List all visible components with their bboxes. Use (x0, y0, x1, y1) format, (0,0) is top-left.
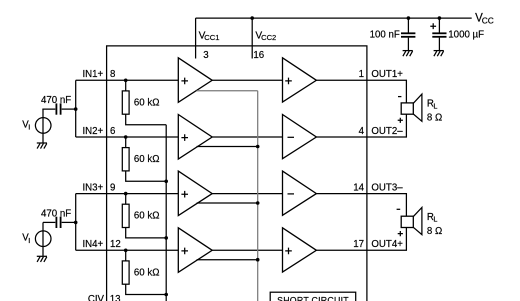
svg-text:14: 14 (353, 183, 364, 194)
IN4+ label (82, 239, 103, 250)
svg-text:60 kΩ: 60 kΩ (134, 267, 160, 278)
pin number 3 (203, 50, 208, 61)
node dot R4 top (124, 249, 128, 253)
wire node B vertical split (75, 194, 77, 251)
node dot C3 tap (407, 16, 411, 20)
svg-text:6: 6 (110, 126, 115, 137)
node dot R3 bus join (164, 236, 168, 240)
pin number 13 (110, 294, 121, 301)
svg-text:8: 8 (110, 69, 115, 80)
svg-text:CC1: CC1 (204, 33, 219, 42)
node dot R2 top (124, 135, 128, 139)
resistor R2 60k (122, 137, 166, 181)
svg-text:17: 17 (353, 239, 364, 250)
470 nF value label lower (41, 209, 71, 220)
op-amp P1 power stage (283, 58, 317, 102)
IN1+ label (82, 69, 103, 80)
VI label lower (22, 233, 30, 245)
pin number 8 (110, 69, 115, 80)
feedback bus wire gray (257, 91, 259, 301)
resistor R4 60k (122, 250, 166, 294)
ground below C4 (434, 51, 444, 57)
svg-text:60 kΩ: 60 kΩ (134, 211, 160, 222)
op-amp A3 input buffer (178, 171, 212, 216)
resistor R3 60k (122, 194, 166, 238)
node dot R3 top (124, 192, 128, 196)
node B input tee dot (74, 221, 78, 225)
60 kohm label R4 (134, 267, 160, 278)
60 kohm label R2 (134, 154, 160, 165)
pin number 6 (110, 126, 115, 137)
plus polarity mark C4 (430, 23, 436, 29)
100 nF value label (370, 30, 400, 41)
svg-text:CIV: CIV (88, 294, 105, 301)
wire OUT1+ (316, 80, 406, 103)
capacitor C4 1000uF electrolytic (432, 18, 446, 51)
wire node A vertical split (75, 80, 77, 137)
pin number 16 (253, 50, 264, 61)
minus mark speaker upper (398, 96, 401, 98)
pin 3 VCC1 wire (195, 18, 197, 58)
svg-text:CC: CC (482, 15, 494, 25)
svg-text:4: 4 (359, 126, 365, 137)
IC package outline U1 (107, 46, 367, 301)
wire A3 out (212, 193, 282, 195)
svg-text:IN1+: IN1+ (82, 69, 103, 80)
svg-text:60 kΩ: 60 kΩ (134, 154, 160, 165)
op-amp P3 power stage inverting (283, 171, 317, 215)
CIV label (88, 294, 105, 301)
svg-text:1000 µF: 1000 µF (448, 30, 484, 41)
node dot C4 tap (438, 16, 442, 20)
svg-text:3: 3 (203, 50, 208, 61)
wire OUT4+ (316, 228, 406, 251)
VCC supply rail wire (196, 17, 472, 19)
wire A1 out (212, 79, 282, 81)
VI label upper (22, 119, 30, 131)
8 ohm label lower (427, 226, 442, 237)
svg-text:IN3+: IN3+ (82, 183, 103, 194)
svg-text:100 nF: 100 nF (370, 30, 400, 41)
svg-text:1: 1 (359, 69, 364, 80)
plus mark speaker lower (398, 231, 403, 236)
pin number 9 (110, 183, 115, 194)
capacitor C3 100nF bypass (401, 18, 415, 51)
svg-text:SHORT CIRCUIT: SHORT CIRCUIT (277, 296, 349, 301)
wire A4 out (212, 249, 282, 251)
wire VI to C2 (43, 221, 55, 223)
wire A2 feedback (197, 146, 258, 148)
op-amp P4 power stage (283, 228, 317, 272)
wire IN2+ (76, 136, 179, 138)
svg-text:IN4+: IN4+ (82, 239, 103, 250)
wire A1 feedback gray (197, 90, 258, 92)
node dot R1 top (124, 79, 128, 83)
plus mark speaker upper (398, 118, 403, 123)
svg-text:OUT3–: OUT3– (371, 183, 403, 194)
svg-text:12: 12 (110, 239, 121, 250)
pin number 14 (353, 183, 364, 194)
signal source VI lower (35, 222, 51, 256)
ground below VI lower (37, 256, 47, 262)
470 nF value label upper (41, 95, 71, 106)
ground below VI upper (37, 143, 47, 149)
svg-text:L: L (433, 101, 437, 110)
op-amp A2 input buffer (178, 115, 212, 160)
node dot bus row2 (256, 145, 260, 149)
svg-text:8 Ω: 8 Ω (427, 113, 442, 124)
svg-text:8 Ω: 8 Ω (427, 226, 442, 237)
node dot bus row3 (256, 201, 260, 205)
wire IN4+ (76, 249, 179, 251)
1000 uF value label (448, 30, 484, 41)
node dot R2 bus join (164, 180, 168, 184)
RL label upper (427, 99, 438, 111)
svg-text:13: 13 (110, 294, 121, 301)
pin number 12 (110, 239, 121, 250)
wire A4 feedback (197, 259, 258, 261)
svg-text:I: I (28, 123, 30, 132)
speaker RL lower (401, 207, 422, 234)
wire VI to C1 (43, 108, 55, 111)
wire OUT2- (316, 114, 406, 137)
wire A3 feedback (197, 202, 258, 204)
60 kohm label R1 (134, 97, 160, 108)
bias bus wire to pin 13 (165, 125, 167, 301)
capacitor C2 470nF input (56, 217, 60, 228)
IN2+ label (82, 126, 103, 137)
IN3+ label (82, 183, 103, 194)
speaker RL upper (401, 94, 422, 121)
node dot VCC2 tap (250, 16, 254, 20)
short circuit protection block (270, 292, 356, 301)
svg-text:OUT2–: OUT2– (371, 126, 403, 137)
node dot R4 bus join (164, 293, 168, 297)
op-amp A4 input buffer (178, 228, 212, 272)
resistor R1 60k (122, 80, 166, 124)
VCC label (475, 12, 494, 25)
wire IN3+ (76, 193, 179, 195)
8 ohm label upper (427, 113, 442, 124)
pin number 4 (359, 126, 365, 137)
OUT1+ label (371, 69, 403, 80)
OUT3- label (371, 183, 403, 194)
node dot bus row4 (256, 258, 260, 262)
wire C2 to node B (62, 221, 76, 223)
svg-text:9: 9 (110, 183, 115, 194)
node A input tee dot (74, 107, 78, 111)
op-amp P2 power stage inverting (283, 115, 317, 159)
svg-text:16: 16 (253, 50, 264, 61)
signal source VI upper (35, 109, 51, 143)
VCC2 label (255, 30, 276, 42)
svg-text:60 kΩ: 60 kΩ (134, 97, 160, 108)
60 kohm label R3 (134, 211, 160, 222)
wire OUT3- (316, 194, 406, 217)
svg-text:OUT4+: OUT4+ (371, 239, 403, 250)
svg-text:CC2: CC2 (261, 33, 276, 42)
OUT2- label (371, 126, 403, 137)
pin number 1 (359, 69, 364, 80)
pin number 17 (353, 239, 364, 250)
wire C1 to node A (62, 108, 76, 110)
ground below C3 (403, 51, 413, 57)
svg-text:L: L (433, 215, 437, 224)
capacitor C1 470nF input (56, 103, 60, 114)
minus mark speaker lower (397, 208, 401, 210)
wire A2 out (212, 136, 282, 138)
pin 16 VCC2 wire (251, 18, 253, 58)
op-amp A1 input buffer (178, 58, 212, 103)
svg-text:IN2+: IN2+ (82, 126, 103, 137)
RL label lower (427, 212, 438, 224)
svg-text:470 nF: 470 nF (41, 209, 71, 220)
svg-text:I: I (28, 236, 30, 245)
svg-text:470 nF: 470 nF (41, 95, 71, 106)
OUT4+ label (371, 239, 403, 250)
wire IN1+ (76, 79, 179, 81)
svg-text:OUT1+: OUT1+ (371, 69, 403, 80)
VCC1 label (199, 30, 220, 42)
